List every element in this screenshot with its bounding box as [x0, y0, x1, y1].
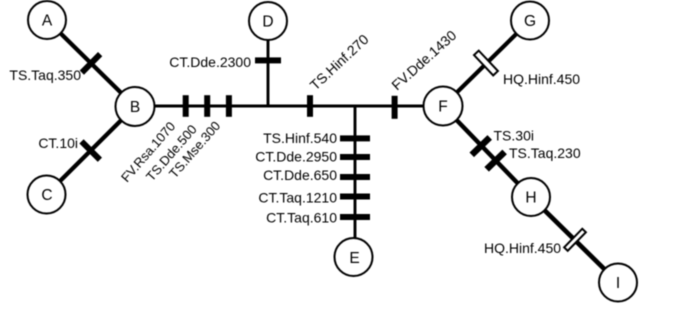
svg-text:D: D	[262, 14, 273, 31]
svg-text:CT.Dde.2300: CT.Dde.2300	[169, 54, 251, 70]
node C	[28, 176, 66, 214]
tick CT.Taq.1210 on E branch	[340, 194, 370, 200]
open tick HQ.Hinf.450 on F-G	[474, 51, 498, 76]
svg-text:B: B	[130, 99, 140, 116]
svg-text:CT.Dde.650: CT.Dde.650	[263, 167, 337, 183]
tick CT.Taq.610 on E branch	[340, 214, 370, 220]
tick TS.Taq.230 on F-H	[484, 150, 506, 172]
svg-text:F: F	[438, 99, 447, 116]
tick CT.10i on B-C	[79, 139, 102, 162]
node H	[512, 178, 550, 216]
svg-text:I: I	[616, 275, 620, 292]
wire E branch	[354, 106, 357, 257]
svg-text:H: H	[525, 189, 536, 206]
svg-text:CT.Dde.2950: CT.Dde.2950	[255, 149, 337, 165]
svg-text:C: C	[41, 187, 52, 204]
node D	[249, 2, 287, 40]
svg-text:TS.30i: TS.30i	[494, 128, 534, 144]
tick CT.Dde.650 on E branch	[340, 174, 370, 180]
wire H-I	[531, 197, 618, 283]
node B	[116, 87, 155, 126]
open tick HQ.Hinf.450 on H-I	[564, 229, 586, 251]
tick TS.Taq.350 on A-B	[80, 52, 103, 75]
wire A-B	[47, 20, 135, 107]
svg-text:CT.Taq.1210: CT.Taq.1210	[258, 190, 337, 206]
tick CT.Dde.2950 on E branch	[340, 154, 370, 160]
svg-text:TS.Hinf.540: TS.Hinf.540	[263, 130, 337, 146]
node I	[599, 264, 637, 302]
tick TS.Hinf.540 on E branch	[340, 135, 370, 141]
svg-text:G: G	[524, 13, 536, 30]
tick TS.Mse.300 on trunk	[226, 95, 232, 117]
wire B-C	[47, 107, 136, 195]
wire F-H	[443, 106, 531, 197]
svg-text:E: E	[349, 250, 359, 267]
svg-text:A: A	[42, 13, 53, 30]
svg-text:TS.Taq.230: TS.Taq.230	[509, 145, 581, 161]
svg-text:TS.Taq.350: TS.Taq.350	[9, 67, 81, 83]
tick TS.30i on F-H	[469, 135, 491, 157]
node G	[511, 2, 549, 40]
node A	[28, 1, 66, 39]
tick CT.Dde.2300 on D branch	[255, 57, 281, 63]
wire F-G	[443, 21, 530, 107]
svg-text:HQ.Hinf.450: HQ.Hinf.450	[503, 71, 580, 87]
svg-text:CT.Taq.610: CT.Taq.610	[266, 210, 337, 226]
wire trunk B-F	[135, 105, 443, 108]
tick FV.Rsa.1070 on trunk	[183, 95, 189, 117]
tick TS.Hinf.270 on trunk	[307, 95, 313, 117]
node E	[335, 238, 373, 276]
tick FV.Dde.1430 on trunk	[392, 96, 398, 119]
svg-text:HQ.Hinf.450: HQ.Hinf.450	[484, 240, 561, 256]
tick TS.Dde.500 on trunk	[204, 95, 210, 117]
svg-text:CT.10i: CT.10i	[38, 135, 78, 151]
node F	[424, 87, 463, 126]
wire D branch	[267, 21, 270, 106]
